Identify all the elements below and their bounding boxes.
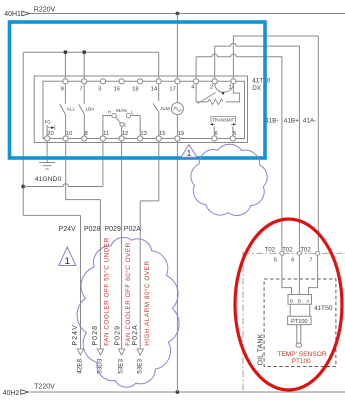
svg-text:40H2: 40H2: [3, 390, 20, 397]
svg-text:B: B: [290, 298, 293, 303]
svg-text:P028: P028: [92, 325, 99, 346]
svg-text:9: 9: [61, 86, 64, 92]
svg-text:14: 14: [151, 86, 158, 92]
svg-text:OIL TANK: OIL TANK: [255, 333, 264, 365]
svg-text:41TS0: 41TS0: [314, 305, 333, 312]
svg-text:10: 10: [66, 131, 72, 137]
svg-text:6: 6: [215, 131, 218, 137]
svg-text:T02: T02: [300, 247, 311, 253]
svg-text:1: 1: [229, 85, 232, 91]
svg-text:ALL: ALL: [67, 106, 76, 111]
svg-text:FAN COOLER OFF 60°C OVER: FAN COOLER OFF 60°C OVER: [124, 242, 132, 346]
svg-text:T02: T02: [282, 247, 293, 253]
svg-text:C: C: [124, 122, 127, 127]
svg-text:12: 12: [122, 131, 128, 137]
svg-text:17: 17: [169, 86, 175, 92]
svg-text:53D3: 53D3: [97, 358, 104, 374]
svg-text:53E3: 53E3: [136, 358, 143, 373]
svg-text:3: 3: [98, 86, 101, 92]
svg-text:20: 20: [47, 131, 53, 137]
svg-text:FAN COOLER OFF 55°C UNDER: FAN COOLER OFF 55°C UNDER: [103, 237, 111, 346]
svg-text:B: B: [298, 298, 301, 303]
svg-text:41GND0: 41GND0: [35, 176, 62, 183]
svg-text:2: 2: [210, 85, 213, 91]
svg-text:T220V: T220V: [34, 384, 55, 391]
svg-text:MAN: MAN: [116, 108, 126, 113]
svg-text:PT100: PT100: [291, 319, 307, 325]
svg-text:FG: FG: [45, 120, 52, 125]
svg-text:53E3: 53E3: [118, 358, 125, 373]
svg-text:40H1: 40H1: [4, 11, 21, 18]
svg-text:DX: DX: [252, 85, 262, 92]
svg-text:41A-: 41A-: [303, 118, 317, 125]
svg-text:LBA: LBA: [86, 106, 96, 111]
svg-text:H: H: [108, 110, 111, 115]
svg-text:P24V: P24V: [59, 226, 76, 233]
svg-text:P028: P028: [84, 226, 100, 233]
svg-text:TRANSMIT: TRANSMIT: [212, 117, 234, 122]
svg-text:18: 18: [132, 86, 138, 92]
svg-text:11: 11: [103, 131, 109, 137]
svg-text:P029: P029: [115, 325, 122, 346]
svg-text:ALM: ALM: [160, 106, 170, 111]
svg-text:41B-: 41B-: [265, 118, 279, 125]
svg-text:1: 1: [65, 256, 70, 267]
svg-text:P02A: P02A: [124, 226, 141, 233]
svg-text:5: 5: [233, 131, 236, 137]
svg-text:6: 6: [291, 257, 294, 263]
svg-text:T02: T02: [265, 247, 276, 253]
svg-text:8: 8: [85, 131, 88, 137]
svg-text:P029: P029: [105, 226, 121, 233]
svg-text:7: 7: [79, 86, 82, 92]
svg-text:13: 13: [140, 131, 146, 137]
svg-text:15: 15: [159, 131, 165, 137]
svg-text:41B+: 41B+: [284, 118, 299, 125]
svg-text:19: 19: [178, 131, 184, 137]
svg-text:42E8: 42E8: [77, 358, 84, 373]
svg-text:P24V: P24V: [72, 324, 79, 346]
svg-text:1: 1: [187, 149, 192, 158]
svg-text:5: 5: [274, 257, 277, 263]
svg-text:A: A: [306, 298, 309, 303]
svg-text:7: 7: [309, 257, 312, 263]
svg-text:P02A: P02A: [132, 324, 139, 346]
svg-text:HIGH ALARM 80°C OVER: HIGH ALARM 80°C OVER: [143, 261, 151, 346]
svg-text:PT100: PT100: [292, 358, 311, 365]
svg-text:16: 16: [114, 86, 120, 92]
svg-text:41TT0: 41TT0: [252, 77, 271, 84]
svg-text:R220V: R220V: [34, 7, 56, 14]
